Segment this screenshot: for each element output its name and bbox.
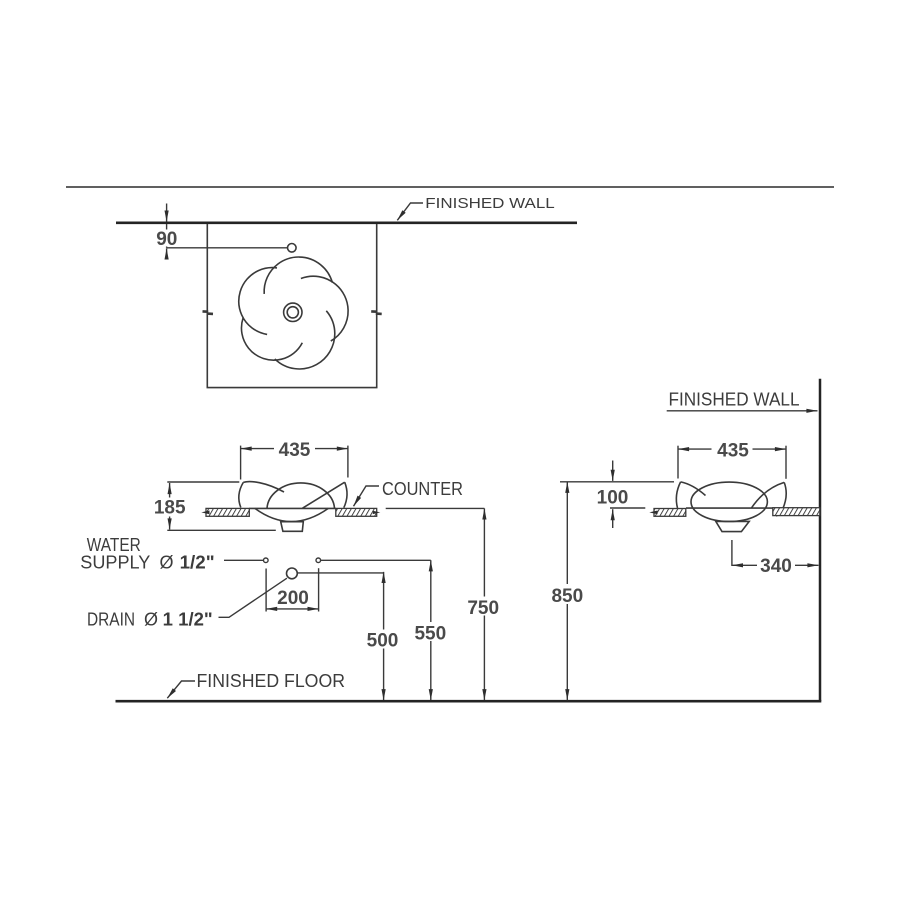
node dimension 90 [166,204,168,222]
wire water supply line right [321,559,431,561]
svg-text:340: 340 [760,556,792,577]
svg-text:500: 500 [367,631,399,652]
drain outer circle (plan) [284,303,302,321]
wire counter line through basin (front) [249,507,335,509]
basin side: drain stub [716,521,749,531]
wire water supply line left [224,559,263,561]
wire finished floor line [116,700,822,703]
svg-text:SUPPLY: SUPPLY [80,553,150,573]
svg-text:850: 850 [551,586,583,607]
node dimension 185 [167,481,239,483]
basin side: left petal left edge [676,482,680,508]
basin front: center dome [267,483,335,508]
basin flower petal right (plan) [301,276,348,341]
basin front: petal diagonal [303,482,345,508]
counter hatch right (front) [336,508,377,516]
svg-text:1/2": 1/2" [180,553,215,573]
wire plan finished wall line [116,221,577,224]
svg-text:550: 550 [414,624,446,645]
wire counter line extension right (front) [386,507,485,509]
basin front: bowl below counter [255,508,328,521]
svg-text:435: 435 [279,440,311,461]
basin flower petal upper-left (plan) [239,268,277,335]
svg-text:Ø: Ø [160,553,174,573]
node dimension 500 [383,572,385,700]
node water supply hole right [316,558,321,563]
node dimension 340 [731,540,733,566]
basin flower petal lower-left (plan) [241,318,302,360]
svg-text:185: 185 [154,498,186,519]
node dimension 200 [265,569,267,612]
drain inner circle (plan) [287,307,298,318]
svg-text:DRAIN: DRAIN [87,609,135,629]
node dimension 550 [430,560,432,700]
break tick left [203,311,214,314]
counter hatch left (front) [206,508,249,516]
basin front: right petal right edge [344,482,347,508]
basin front: left petal top edge [243,482,284,492]
wire leader finished floor [167,681,195,698]
svg-text:FINISHED WALL: FINISHED WALL [425,195,554,212]
svg-text:90: 90 [156,229,177,250]
node dimension 100 [612,461,614,481]
basin front: left petal left edge [239,482,244,507]
wire counter line through basin (side) [686,507,773,509]
wire side wall line [819,379,822,702]
wire faucet reference line [167,247,288,249]
svg-text:100: 100 [597,487,629,508]
svg-text:FINISHED WALL: FINISHED WALL [669,390,800,410]
hatch end arrow left (side) [649,511,657,515]
svg-text:435: 435 [717,440,749,461]
basin side: bowl ellipse [691,482,767,521]
wire leader counter [354,486,380,506]
basin flower petal bottom-right (plan) [275,311,335,369]
counter hatch right (side) [773,508,820,516]
svg-text:1 1/2": 1 1/2" [163,609,213,629]
basin flower petal top (plan) [264,257,332,294]
basin front: drain stub [281,522,304,532]
node dimension 850 [560,481,674,483]
basin side: right petal right edge [776,482,786,516]
wire leader drain [219,578,287,617]
svg-text:Ø: Ø [144,609,158,629]
top border line [66,186,834,188]
svg-text:FINISHED FLOOR: FINISHED FLOOR [197,671,346,691]
basin side: left petal top edge [681,482,706,496]
node dimension 435 (front) [240,446,242,480]
node dimension 750 [483,508,485,700]
counter hatch left (side) [654,509,686,517]
node faucet hole (plan) [288,244,297,253]
break tick right [371,311,382,314]
node water supply hole left [264,558,269,563]
svg-text:200: 200 [277,588,309,609]
svg-text:750: 750 [467,598,499,619]
node dimension 435 (side) [677,446,679,479]
node drain hole (front) [287,568,298,579]
basin side: right petal left edge [751,482,784,508]
hatch end arrow right [373,511,381,514]
wire leader finished wall plan [397,203,423,220]
counter rectangle (plan) [207,224,376,388]
hatch end arrow left [201,511,209,515]
wire finished wall underline with arrow [667,410,818,412]
wire drain reference line [298,572,384,574]
svg-text:COUNTER: COUNTER [382,479,463,499]
